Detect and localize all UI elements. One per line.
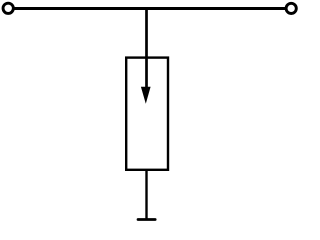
- component box (surge arrester / terminal element): [126, 58, 168, 170]
- wire: bottom lead from component box: [145, 170, 147, 220]
- arrowhead: downward arrow inside component box: [141, 87, 151, 104]
- bottom terminal bar (rail/ground connection): [138, 218, 155, 221]
- terminal circle left (input terminal): [3, 3, 13, 13]
- wire: top horizontal bus between terminals: [13, 7, 286, 10]
- wire: vertical tap from bus into component box: [145, 9, 148, 90]
- terminal circle right (output terminal): [286, 3, 296, 13]
